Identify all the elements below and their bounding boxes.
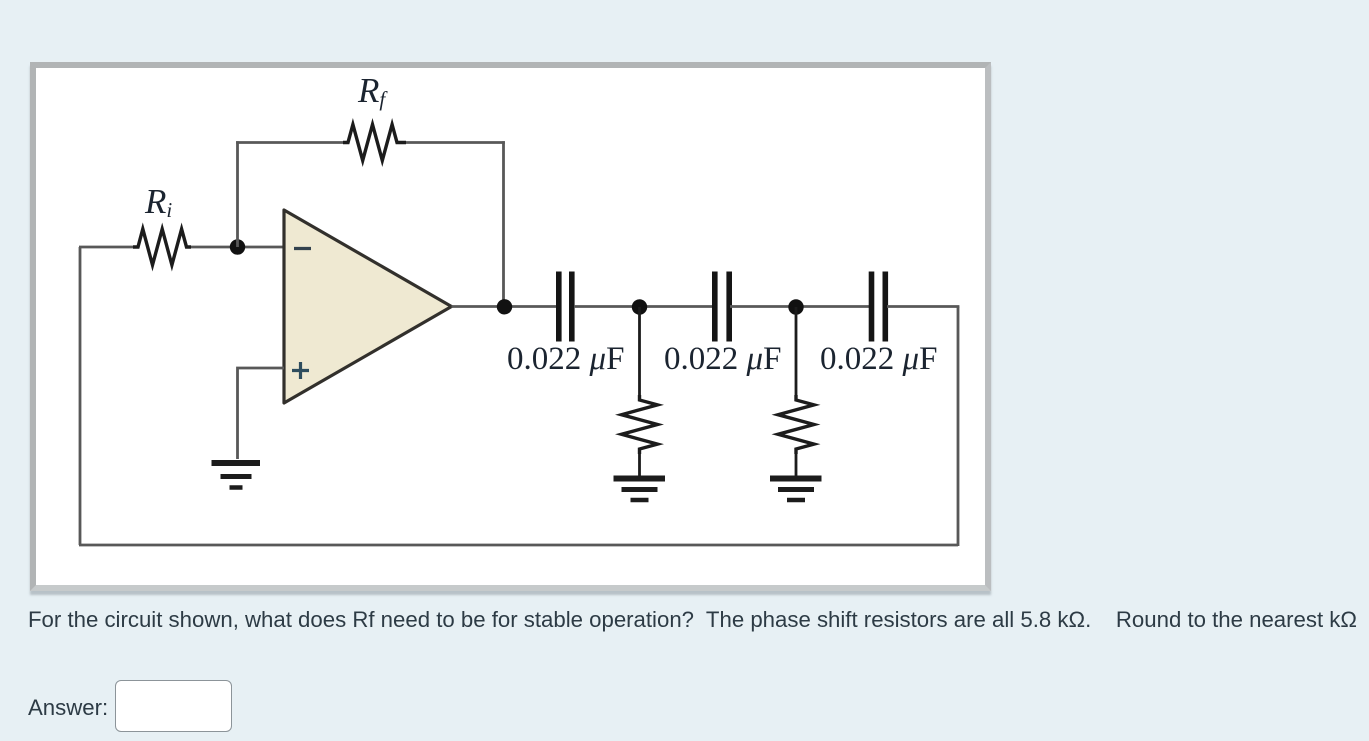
capacitor C1 [559,272,572,342]
wire: non-inverting input to ground [238,368,285,459]
wire: C2 to node D [730,305,869,308]
resistor Ri [133,229,191,265]
wire: right feedback vertical [957,307,960,547]
wire: top feedback left segment [236,141,343,144]
op-amp U1 [284,210,452,403]
svg-text:0.022 μF: 0.022 μF [664,341,781,377]
wire: node D down to R2 [795,307,798,396]
node D junction dot [788,299,803,314]
svg-text:0.022 μF: 0.022 μF [507,341,624,377]
wire: bottom feedback horizontal [79,544,958,547]
figure panel [30,62,991,591]
answer label [28,695,108,721]
wire: left feedback vertical [79,247,82,545]
capacitor C2 [715,272,729,342]
wire: feedback down to output node [502,141,505,306]
wire: R1 to ground [638,454,641,476]
wire: op-amp output [452,305,557,308]
svg-text:0.022 μF: 0.022 μF [820,341,937,377]
wire: C3 to right feedback corner [887,305,959,308]
wire: node C down to R1 [638,307,641,396]
capacitor C3 [872,272,886,342]
node C junction dot [632,299,647,314]
wire: C1 to node C [574,305,712,308]
svg-text:Ri: Ri [144,182,172,222]
wire: node A up to feedback [236,141,239,247]
ground G2 [614,479,666,501]
op-amp minus sign [294,247,311,250]
ground G3 [770,479,822,501]
answer input box [115,680,232,732]
wire: top feedback right segment [406,141,505,144]
node B output junction dot [497,299,512,314]
ground G1 [212,463,261,488]
svg-text:Rf: Rf [357,71,388,111]
wire: Ri to inverting input [191,246,284,249]
wire: input to Ri [79,246,133,249]
resistor R1 (phase shift) [622,395,658,454]
wire: R2 to ground [795,454,798,476]
op-amp plus sign [292,362,309,379]
resistor Rf [343,125,406,161]
question text [28,607,1369,633]
resistor R2 (phase shift) [778,395,814,454]
node A junction dot [230,239,245,254]
